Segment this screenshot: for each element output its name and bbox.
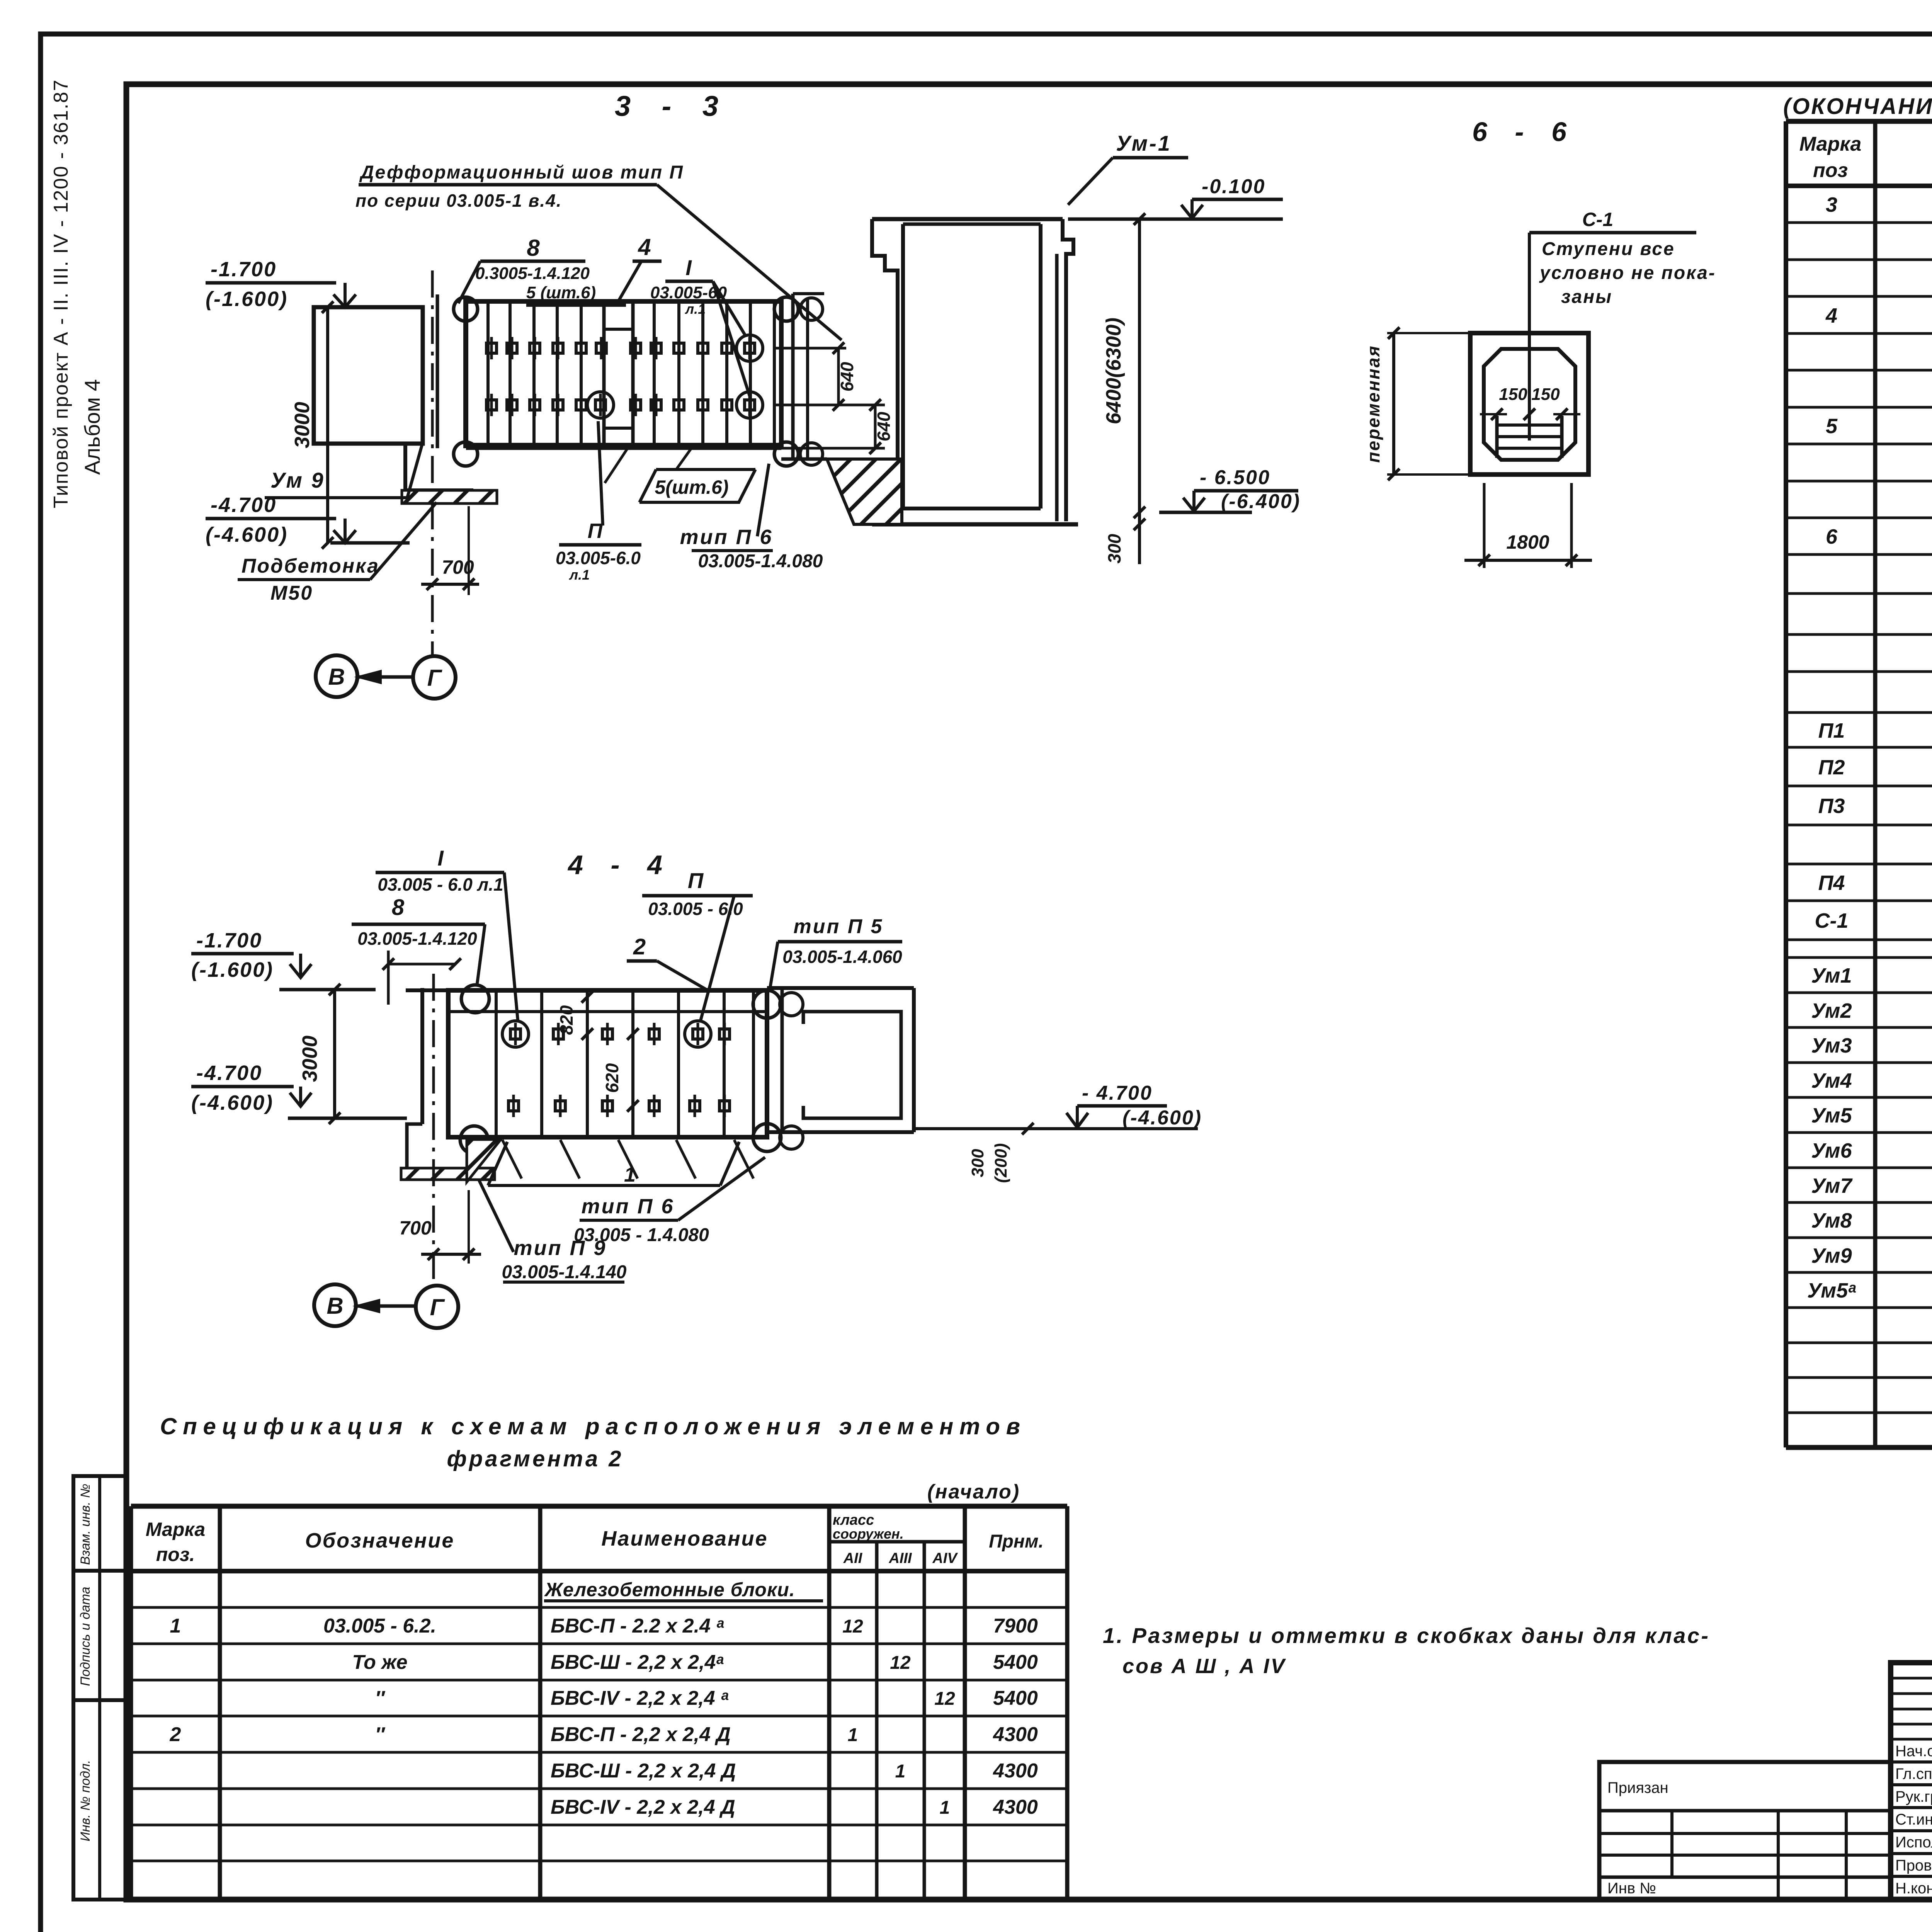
svg-text:заны: заны xyxy=(1561,287,1612,307)
svg-text:Ум4: Ум4 xyxy=(1811,1069,1852,1092)
svg-text:Ум5ᵃ: Ум5ᵃ xyxy=(1807,1279,1856,1302)
margin strip boxes xyxy=(73,1476,126,1900)
svg-text:Ступени все: Ступени все xyxy=(1542,239,1675,259)
dimension 620 rotated xyxy=(627,1028,639,1040)
svg-text:03.005-1.4.140: 03.005-1.4.140 xyxy=(502,1262,627,1282)
svg-text:тип П 6: тип П 6 xyxy=(582,1195,675,1218)
svg-text:3: 3 xyxy=(1826,193,1837,216)
svg-text:300: 300 xyxy=(1104,534,1124,563)
svg-text:сов А Ш , А IV: сов А Ш , А IV xyxy=(1122,1655,1286,1678)
svg-text:Ум9: Ум9 xyxy=(1811,1244,1852,1267)
leaders from flight bottom (4-4) xyxy=(502,1140,522,1179)
6-6 outer square xyxy=(1470,333,1588,474)
svg-text:300: 300 xyxy=(968,1149,987,1177)
svg-text:Г: Г xyxy=(430,1294,446,1320)
level line right (4-4) xyxy=(914,1127,1198,1130)
svg-text:П: П xyxy=(588,519,603,543)
svg-text:1: 1 xyxy=(624,1163,636,1186)
axis Г (4-4) xyxy=(432,974,435,1286)
svg-text:I: I xyxy=(437,846,444,870)
section mark circles В-Г xyxy=(316,655,357,697)
svg-text:(ОКОНЧАНИЕ): (ОКОНЧАНИЕ) xyxy=(1783,94,1932,119)
svg-text:Инв №: Инв № xyxy=(1607,1880,1656,1897)
dimension 6400(6300) xyxy=(1138,219,1141,564)
svg-text:Взам. инв. №: Взам. инв. № xyxy=(78,1484,93,1565)
hatch wedge (4-4) xyxy=(467,1139,501,1182)
leader I to fasteners xyxy=(713,281,746,336)
svg-text:Ум7: Ум7 xyxy=(1811,1174,1853,1197)
svg-text:П2: П2 xyxy=(1818,756,1845,779)
svg-text:П: П xyxy=(688,868,704,893)
stamp name rows xyxy=(1891,1760,1932,1764)
svg-text:Н.контр.: Н.контр. xyxy=(1895,1880,1932,1897)
pit wall right (3-3) xyxy=(872,219,898,524)
svg-text:5: 5 xyxy=(1826,415,1838,438)
fastener squares (4-4) row1 xyxy=(553,1029,563,1039)
svg-text:I: I xyxy=(685,255,692,280)
svg-text:(-1.600): (-1.600) xyxy=(206,287,288,311)
svg-text:4300: 4300 xyxy=(993,1723,1038,1746)
stamp thin rows xyxy=(1891,1677,1932,1680)
svg-text:1: 1 xyxy=(170,1615,181,1637)
svg-text:3000: 3000 xyxy=(291,402,314,448)
wall left (4-4) xyxy=(406,988,456,992)
podbetonka strip (4-4) xyxy=(401,1168,495,1180)
svg-text:Марка: Марка xyxy=(1799,133,1862,155)
svg-text:Железобетонные блоки.: Железобетонные блоки. xyxy=(544,1579,795,1600)
svg-text:Ст.инж.: Ст.инж. xyxy=(1895,1811,1932,1828)
svg-text:поз: поз xyxy=(1813,159,1848,182)
svg-text:″: ″ xyxy=(375,1723,386,1746)
svg-text:(-4.600): (-4.600) xyxy=(1122,1107,1202,1129)
dimension 3000 vertical xyxy=(326,307,329,543)
svg-text:1: 1 xyxy=(940,1798,950,1818)
svg-text:150: 150 xyxy=(1531,385,1560,404)
svg-text:Дефформационный шов тип П: Дефформационный шов тип П xyxy=(359,162,684,183)
svg-text:5400: 5400 xyxy=(993,1651,1038,1673)
svg-text:л.1: л.1 xyxy=(569,567,590,583)
pit plan right (4-4) xyxy=(767,986,914,990)
6-6 stair steps xyxy=(1495,416,1499,458)
svg-text:Обозначение: Обозначение xyxy=(305,1529,455,1552)
svg-text:(-4.600): (-4.600) xyxy=(206,523,288,546)
svg-text:Ум3: Ум3 xyxy=(1811,1034,1852,1057)
svg-text:-1.700: -1.700 xyxy=(196,929,262,952)
svg-text:Провер.: Провер. xyxy=(1895,1857,1932,1874)
svg-text:6 - 6: 6 - 6 xyxy=(1472,117,1577,147)
bottom-left table grid xyxy=(131,1504,1067,1509)
svg-text:Нач.отд: Нач.отд xyxy=(1895,1743,1932,1760)
svg-text:БВС-Ш - 2,2 х 2,4ᵃ: БВС-Ш - 2,2 х 2,4ᵃ xyxy=(551,1651,724,1673)
svg-text:переменная: переменная xyxy=(1363,345,1383,463)
svg-text:- 6.500: - 6.500 xyxy=(1200,466,1270,489)
svg-text:тип П 9: тип П 9 xyxy=(514,1236,607,1260)
svg-text:Марка: Марка xyxy=(146,1519,205,1540)
svg-text:- 4.700: - 4.700 xyxy=(1082,1082,1153,1104)
svg-text:3000: 3000 xyxy=(298,1036,321,1082)
section mark circles В-Г (4-4) xyxy=(314,1284,356,1326)
svg-text:640: 640 xyxy=(837,362,857,391)
svg-text:4 - 4: 4 - 4 xyxy=(567,850,672,880)
svg-text:(начало): (начало) xyxy=(927,1481,1020,1503)
6-6 inner octagon xyxy=(1484,349,1575,460)
svg-text:АIII: АIII xyxy=(888,1550,912,1566)
privyazan table xyxy=(1599,1762,1891,1900)
wall left of 3-3 xyxy=(314,307,423,444)
6-6 left dimension ПЕРЕМЕННАЯ xyxy=(1392,333,1395,474)
svg-text:АIV: АIV xyxy=(932,1550,958,1566)
svg-text:1. Размеры и отметки в скобка: 1. Размеры и отметки в скобках даны для … xyxy=(1103,1623,1708,1648)
flight block 3-3 outline xyxy=(466,301,781,445)
svg-text:Типовой проект А - II. III. I: Типовой проект А - II. III. IV - 1200 - … xyxy=(50,79,72,509)
svg-text:Инв. № подл.: Инв. № подл. xyxy=(78,1760,93,1842)
svg-text:2: 2 xyxy=(633,934,646,959)
svg-text:12: 12 xyxy=(934,1689,955,1709)
svg-text:-4.700: -4.700 xyxy=(196,1061,262,1085)
svg-text:620: 620 xyxy=(602,1063,622,1093)
svg-text:4: 4 xyxy=(638,234,651,260)
svg-text:-0.100: -0.100 xyxy=(1202,175,1265,198)
central band block 4 xyxy=(602,301,606,445)
svg-text:поз.: поз. xyxy=(156,1544,195,1565)
svg-text:М50: М50 xyxy=(270,582,313,604)
svg-text:-1.700: -1.700 xyxy=(211,258,277,281)
flight block (4-4) xyxy=(448,990,767,1137)
svg-text:5400: 5400 xyxy=(993,1687,1038,1709)
axis Г vertical dash-dot xyxy=(431,270,434,656)
circled fasteners right xyxy=(745,343,755,353)
640 dimensions xyxy=(775,347,846,350)
svg-text:сооружен.: сооружен. xyxy=(833,1526,904,1542)
svg-text:Ум5: Ум5 xyxy=(1811,1104,1852,1127)
hatched wedge under pit xyxy=(827,459,902,524)
svg-text:тип П 5: тип П 5 xyxy=(794,915,884,938)
svg-text:1: 1 xyxy=(848,1725,858,1745)
svg-text:6: 6 xyxy=(1826,525,1838,548)
svg-text:0.3005-1.4.120: 0.3005-1.4.120 xyxy=(475,264,590,283)
flight verticals xyxy=(486,301,490,445)
svg-text:Прнм.: Прнм. xyxy=(989,1531,1044,1552)
corner joint circles xyxy=(454,297,478,321)
corner circles (4-4) xyxy=(461,985,489,1013)
svg-text:3 - 3: 3 - 3 xyxy=(615,90,730,122)
svg-text:03.005-1.4.120: 03.005-1.4.120 xyxy=(357,929,477,949)
label 5 (шт.6) bottom parallelogram xyxy=(639,501,740,504)
leader deformation joint xyxy=(657,185,842,340)
svg-text:2: 2 xyxy=(170,1723,181,1746)
svg-text:03.005-6.0: 03.005-6.0 xyxy=(556,548,641,568)
svg-text:Ум-1: Ум-1 xyxy=(1116,131,1172,155)
top small dimension (4-4) xyxy=(387,951,390,1005)
svg-text:12: 12 xyxy=(842,1616,863,1637)
dimension 820 rotated xyxy=(582,991,593,1003)
svg-text:Ум2: Ум2 xyxy=(1811,999,1852,1022)
right specification table grid xyxy=(1786,119,1932,124)
svg-text:8: 8 xyxy=(527,235,540,261)
svg-text:БВС-IV - 2,2 х 2,4 ᵃ: БВС-IV - 2,2 х 2,4 ᵃ xyxy=(551,1687,729,1709)
svg-text:8: 8 xyxy=(392,895,405,920)
svg-text:(-6.400): (-6.400) xyxy=(1221,490,1301,513)
svg-text:03.005 - 6.0 л.1: 03.005 - 6.0 л.1 xyxy=(378,874,503,895)
6-6 bottom dimension 1800 xyxy=(1483,483,1486,568)
podbetonka hatched strip xyxy=(402,490,497,503)
title block outer box xyxy=(1891,1663,1932,1900)
svg-text:Подбетонка: Подбетонка xyxy=(241,555,379,577)
svg-text:Альбом 4: Альбом 4 xyxy=(80,379,104,475)
svg-text:П3: П3 xyxy=(1818,794,1845,818)
svg-text:Ум1: Ум1 xyxy=(1811,964,1852,987)
callout parallelogram with 1 xyxy=(488,1184,720,1187)
svg-text:03.005-1.4.080: 03.005-1.4.080 xyxy=(698,551,823,571)
fastener squares row 1 xyxy=(486,343,497,353)
svg-text:С-1: С-1 xyxy=(1815,909,1848,932)
svg-text:В: В xyxy=(327,1293,343,1319)
svg-text:Подпись и дата: Подпись и дата xyxy=(78,1587,93,1686)
svg-text:То же: То же xyxy=(352,1651,407,1673)
leaders from flight bottom xyxy=(605,448,628,483)
svg-text:БВС-Ш - 2,2 х 2,4 Д: БВС-Ш - 2,2 х 2,4 Д xyxy=(551,1760,736,1782)
svg-text:С-1: С-1 xyxy=(1582,209,1614,230)
svg-text:4300: 4300 xyxy=(993,1796,1038,1818)
svg-text:1: 1 xyxy=(895,1761,906,1782)
svg-text:(-1.600): (-1.600) xyxy=(191,958,274,981)
svg-text:Гл.спец.: Гл.спец. xyxy=(1895,1765,1932,1782)
flight verticals (4-4) xyxy=(495,990,498,1137)
circled fastener middle xyxy=(595,400,605,410)
svg-text:″: ″ xyxy=(375,1687,386,1709)
svg-text:В: В xyxy=(328,664,345,690)
thin wall right of flight xyxy=(793,292,824,295)
svg-text:640: 640 xyxy=(874,412,894,441)
svg-text:6400(6300): 6400(6300) xyxy=(1102,318,1125,424)
svg-text:Приязан: Приязан xyxy=(1607,1779,1668,1796)
svg-text:АII: АII xyxy=(843,1550,863,1566)
svg-text:П4: П4 xyxy=(1818,871,1845,895)
svg-text:03.005-1.4.060: 03.005-1.4.060 xyxy=(782,947,902,967)
svg-text:Исполн.: Исполн. xyxy=(1895,1834,1932,1851)
svg-text:5(шт.6): 5(шт.6) xyxy=(655,476,728,498)
svg-text:4300: 4300 xyxy=(993,1760,1038,1782)
svg-text:(-4.600): (-4.600) xyxy=(191,1091,274,1114)
svg-text:03.005 - 6.2.: 03.005 - 6.2. xyxy=(323,1615,436,1637)
dimension 3000 (4-4) xyxy=(333,990,336,1118)
svg-text:4: 4 xyxy=(1825,304,1837,327)
svg-text:Ум 9: Ум 9 xyxy=(270,468,325,492)
svg-text:П1: П1 xyxy=(1818,719,1845,742)
svg-text:Рук.гр: Рук.гр xyxy=(1895,1788,1932,1805)
svg-text:1800: 1800 xyxy=(1506,531,1549,553)
svg-text:820: 820 xyxy=(556,1005,577,1035)
svg-text:Ум8: Ум8 xyxy=(1811,1209,1852,1232)
svg-text:по серии 03.005-1 в.4.: по серии 03.005-1 в.4. xyxy=(355,190,562,211)
svg-text:Г: Г xyxy=(427,665,443,691)
svg-text:БВС-IV - 2,2 х 2,4 Д: БВС-IV - 2,2 х 2,4 Д xyxy=(551,1796,735,1818)
svg-text:БВС-П - 2,2 х 2,4 Д: БВС-П - 2,2 х 2,4 Д xyxy=(551,1723,731,1746)
svg-text:150: 150 xyxy=(1499,385,1527,404)
svg-text:(200): (200) xyxy=(992,1143,1010,1183)
svg-text:Ум6: Ум6 xyxy=(1811,1139,1852,1162)
wall joint verticals xyxy=(436,294,439,448)
circled fasteners (4-4) xyxy=(510,1029,520,1039)
fastener squares row 2 xyxy=(486,400,497,410)
svg-text:фрагмента 2: фрагмента 2 xyxy=(447,1446,624,1471)
svg-text:условно не пока-: условно не пока- xyxy=(1539,263,1716,283)
svg-text:12: 12 xyxy=(890,1653,911,1673)
fastener squares (4-4) row2 xyxy=(509,1101,519,1111)
svg-text:БВС-П - 2.2 х 2.4 ᵃ: БВС-П - 2.2 х 2.4 ᵃ xyxy=(551,1615,724,1637)
svg-text:Наименование: Наименование xyxy=(601,1527,768,1550)
lower step block xyxy=(405,444,473,490)
svg-text:700: 700 xyxy=(399,1217,432,1239)
svg-text:7900: 7900 xyxy=(993,1615,1038,1637)
